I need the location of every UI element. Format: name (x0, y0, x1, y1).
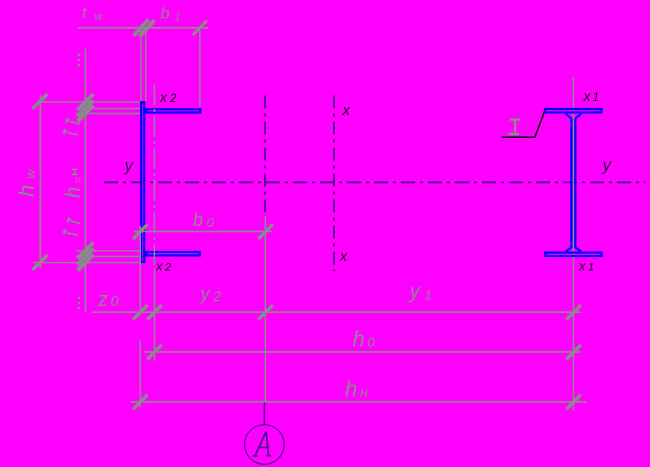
tick y2/y1 middle (258, 305, 273, 320)
axis y-y (horizontal dash-dot violet) (104, 181, 646, 183)
tick tw left (double slash) (134, 20, 149, 36)
svg-text:y: y (602, 155, 613, 174)
tick b0 right (258, 224, 273, 239)
dimension line b0 (134, 231, 272, 233)
I-beam bottom flange (545, 253, 601, 256)
extension line web bottom (33, 262, 141, 264)
channel top flange (146, 109, 200, 112)
I-beam centerline (vertical) (572, 77, 574, 411)
extension line web left face (from tw dim down to web top) (140, 28, 142, 101)
I-beam top flange (545, 109, 601, 112)
dimension line h inner (second vertical) (84, 49, 86, 312)
tick cluster top (web top / flange top / flange bottom) (77, 94, 93, 110)
extension line web right face (145, 28, 147, 101)
leader to I-beam (black) (502, 110, 545, 137)
svg-text:x: x (342, 102, 351, 119)
extension line web top (horizontal) (39, 101, 141, 103)
extension line bottom flange bottom (76, 256, 141, 258)
tick y2 left b (147, 305, 162, 320)
tick h0 right (566, 345, 581, 360)
tick y2 left a (133, 305, 148, 320)
channel bottom flange (146, 252, 199, 255)
extension line top flange bottom (76, 113, 141, 115)
tick h0 left (147, 345, 162, 360)
tick cluster bottom (77, 243, 93, 259)
I-section symbol (gray) (510, 118, 520, 120)
extension line web face vertical (down to hn dim) (139, 226, 141, 313)
dotted continuation bottom (78, 297, 80, 309)
extension line bottom flange top (76, 250, 141, 252)
extension line channel centroid (down to h0 dim) (154, 268, 156, 361)
tick hw top (32, 94, 47, 109)
leader to circle A (263, 403, 265, 425)
dimension line tw/b1 (top horizontal) (78, 27, 209, 29)
dimension line h0 (144, 351, 581, 353)
label A in circle (253, 432, 271, 457)
label tf top b (63, 129, 79, 135)
dimension line hw (left vertical) (39, 95, 41, 268)
label tf top a (65, 118, 80, 124)
tick hn right (566, 395, 581, 410)
channel web (blue, hollow outline) (141, 102, 144, 262)
tick hw bottom (32, 255, 47, 270)
label tf bottom b (63, 229, 79, 235)
extension line combined centroid (down to circle A) (264, 216, 266, 402)
tick hn left (133, 395, 148, 410)
svg-text:x: x (339, 248, 348, 264)
tick b1 right (193, 21, 207, 35)
circle A (245, 425, 285, 465)
svg-text:y: y (124, 156, 135, 175)
axis combined centroid (vertical dash-dot violet) (264, 96, 266, 213)
extension line top flange top (76, 108, 141, 110)
label tf bottom a (67, 217, 80, 223)
dimension line hn (131, 401, 587, 403)
dotted continuation top (78, 54, 80, 68)
axis x2 channel centroid (vertical dash-dot) (153, 84, 155, 268)
I-beam web (566, 114, 572, 252)
dimension line z0/y2/y1 (92, 311, 581, 313)
extension line b1 right end (199, 28, 201, 107)
tick b0 left (133, 224, 148, 239)
tick y1 right (566, 305, 581, 320)
axis x-x (vertical dash-dot violet) (333, 96, 335, 272)
label h_st subscript I-glyph (72, 169, 78, 174)
